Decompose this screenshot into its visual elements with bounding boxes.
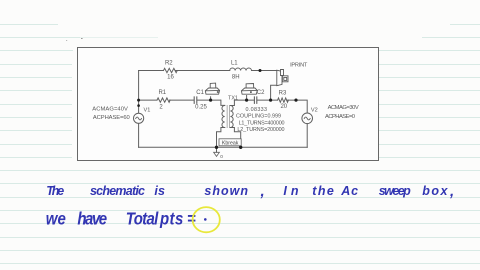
svg-text:0.08333: 0.08333 (246, 107, 268, 113)
svg-text:the: the (312, 184, 334, 198)
svg-text:,: , (260, 183, 265, 200)
svg-text:COUPLING=0.999: COUPLING=0.999 (236, 114, 281, 120)
svg-text:In: In (283, 184, 298, 198)
svg-text:C2: C2 (257, 90, 265, 96)
svg-text:ACPHASE=60: ACPHASE=60 (93, 115, 130, 121)
svg-text:L2_TURNS=200000: L2_TURNS=200000 (237, 127, 284, 133)
svg-text:C1: C1 (196, 90, 204, 96)
svg-text:2: 2 (159, 105, 163, 111)
svg-text:schematic: schematic (90, 184, 145, 198)
svg-text:L1_TURNS=400000: L1_TURNS=400000 (239, 120, 285, 126)
svg-text:Ac: Ac (340, 184, 358, 198)
svg-text:R3: R3 (279, 90, 287, 96)
svg-text:V1: V1 (144, 108, 151, 114)
svg-text:L1: L1 (231, 60, 238, 66)
svg-text:16: 16 (167, 75, 174, 81)
svg-text:R1: R1 (158, 90, 166, 96)
svg-text:V2: V2 (311, 107, 318, 113)
svg-text:20: 20 (280, 104, 287, 110)
svg-text:Total: Total (126, 210, 159, 229)
svg-text:Kbreak: Kbreak (222, 141, 239, 147)
svg-text:0: 0 (220, 154, 223, 160)
svg-text:we: we (46, 210, 66, 229)
svg-text:ACMAG=40V: ACMAG=40V (92, 106, 128, 112)
svg-text:0.25: 0.25 (195, 105, 207, 111)
svg-text:R2: R2 (165, 60, 173, 66)
svg-text:is: is (154, 184, 165, 198)
svg-text:pts: pts (159, 210, 183, 229)
svg-text:,: , (449, 183, 454, 200)
svg-text:shown: shown (204, 184, 248, 198)
svg-text:ACPHASE=0: ACPHASE=0 (325, 114, 355, 120)
svg-text:IPRINT: IPRINT (290, 63, 308, 69)
svg-text:8H: 8H (232, 75, 240, 81)
svg-text:ACMAG=30V: ACMAG=30V (328, 105, 359, 111)
svg-text:The: The (46, 184, 64, 198)
svg-text:sweep: sweep (379, 184, 411, 198)
svg-text:TX1: TX1 (228, 95, 238, 101)
svg-text:have: have (77, 210, 107, 229)
svg-text:box: box (422, 184, 448, 198)
